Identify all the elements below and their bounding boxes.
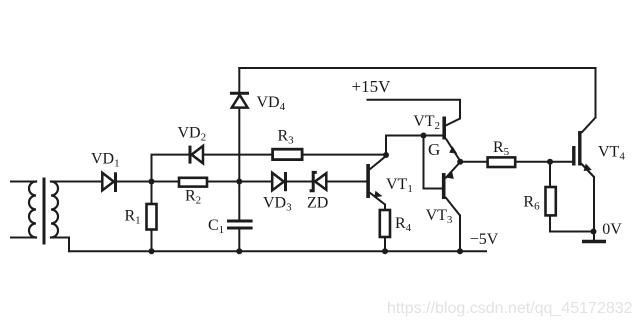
diode VD1 bbox=[102, 172, 115, 192]
node junction C1 top bbox=[236, 179, 242, 185]
wire center vertical VD4 branch bbox=[238, 68, 240, 221]
wire R6 bottom lead to 0V node bbox=[550, 215, 594, 231]
node junction VD1/R1/VD2 bbox=[149, 179, 155, 185]
wire R1 top lead bbox=[151, 182, 153, 205]
wire R4 top lead bbox=[384, 205, 386, 211]
wire main line ZD to VT1 base bbox=[326, 181, 366, 183]
wire output node to R5 bbox=[460, 161, 487, 163]
transformer T core bbox=[43, 179, 46, 243]
transformer T primary winding bbox=[29, 182, 36, 238]
node junction VT1 collector / R3 bbox=[383, 152, 389, 158]
transistor VT1 bbox=[368, 156, 386, 205]
svg-text:G: G bbox=[428, 140, 440, 159]
svg-text:0V: 0V bbox=[602, 221, 622, 238]
resistor R5 bbox=[488, 157, 516, 167]
wire primary bottom lead bbox=[11, 237, 36, 239]
node junction R6/VT4 emitter 0V bbox=[591, 229, 597, 235]
wire +15V line bbox=[368, 100, 461, 119]
resistor R6 bbox=[546, 187, 556, 215]
resistor R2 bbox=[179, 178, 207, 187]
node junction VT2/VT3 base tie bbox=[421, 133, 427, 139]
node junction R4 bottom rail bbox=[382, 248, 388, 254]
node junction C1 bottom rail bbox=[236, 248, 242, 254]
wire VT1 collector riser to VT2 base bbox=[386, 136, 442, 155]
wire base tie VT2 to VT3 bbox=[424, 136, 442, 189]
resistor R1 bbox=[147, 204, 157, 230]
wire secondary bottom lead step bbox=[51, 238, 69, 252]
capacitor C1 bbox=[227, 221, 253, 228]
node G output junction bbox=[457, 159, 463, 165]
transistor VT2 bbox=[444, 117, 460, 162]
ground 0V bbox=[582, 240, 606, 243]
svg-text:ZD: ZD bbox=[307, 195, 328, 212]
resistor R4 bbox=[380, 210, 390, 237]
zener diode ZD bbox=[310, 172, 327, 190]
svg-text:+15V: +15V bbox=[352, 77, 392, 96]
wire top rail bbox=[239, 68, 595, 118]
wire C1 bottom lead bbox=[238, 228, 240, 251]
node junction R1 bottom rail bbox=[149, 248, 155, 254]
wire VD2 to crossing bbox=[203, 154, 273, 156]
wire bottom rail bbox=[69, 250, 486, 252]
wire VT3 collector drop bbox=[459, 216, 461, 252]
diode VD2 bbox=[190, 146, 203, 164]
wire main line VD1 cathode to R2 bbox=[116, 181, 180, 183]
wire VT4 emitter drop to ground bbox=[593, 177, 595, 242]
node junction VT3 collector rail -5V bbox=[457, 248, 463, 254]
diode VD3 bbox=[272, 172, 285, 191]
transistor VT4 bbox=[574, 118, 596, 178]
wire VD2 branch riser bbox=[152, 155, 189, 182]
wire primary top lead bbox=[11, 181, 36, 183]
svg-text:−5V: −5V bbox=[470, 231, 499, 248]
wire R3 to VT1 collector node bbox=[302, 154, 386, 156]
wire R4 bottom lead bbox=[384, 237, 386, 251]
wire main line R2 to VD3 bbox=[207, 181, 272, 183]
node junction R5/R6/gate bbox=[547, 159, 553, 165]
svg-text:https://blog.csdn.net/qq_45172: https://blog.csdn.net/qq_45172832 bbox=[387, 300, 633, 317]
wire R6 top lead bbox=[549, 162, 551, 187]
diode VD4 bbox=[230, 93, 249, 107]
resistor R3 bbox=[273, 149, 303, 159]
transistor VT3 bbox=[444, 162, 461, 216]
wire R1 bottom lead bbox=[151, 230, 153, 252]
wire secondary top lead to VD1 bbox=[51, 181, 102, 183]
wire R5 to VT4 gate bbox=[515, 161, 572, 163]
wire main line VD3 to ZD bbox=[286, 181, 315, 183]
transformer T secondary winding bbox=[51, 182, 58, 238]
